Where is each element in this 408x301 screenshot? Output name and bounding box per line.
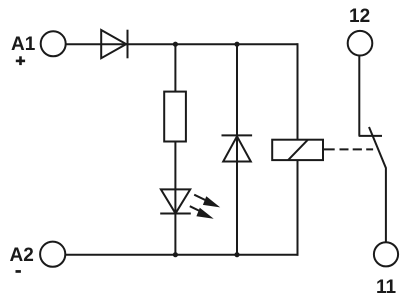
svg-text:11: 11: [376, 277, 397, 298]
terminal A2: [40, 242, 65, 267]
wire top rail: [66, 43, 298, 45]
LED: [160, 189, 191, 213]
wire bottom rail: [66, 254, 299, 256]
wire freewheel diode branch: [236, 44, 238, 255]
dashed actuation link: [324, 148, 373, 150]
svg-text:A2: A2: [10, 245, 34, 266]
terminal 12: [348, 31, 373, 56]
relay coil K1: [272, 140, 323, 161]
wire resistor branch upper: [174, 44, 176, 91]
resistor: [164, 92, 186, 142]
contact blade: [369, 127, 386, 242]
LED arrow 2: [190, 206, 214, 219]
wire contact 12 lead: [358, 55, 360, 136]
terminal A1: [41, 31, 66, 56]
wire resistor branch lower: [174, 142, 176, 255]
terminal 11: [374, 242, 398, 266]
wire relay top: [297, 43, 299, 140]
node junction bottom-right: [234, 252, 239, 257]
LED arrow 1: [194, 195, 220, 208]
svg-text:A1: A1: [11, 34, 36, 55]
wire relay bottom: [297, 160, 299, 256]
node junction top-left: [173, 42, 178, 47]
diode D2 freewheel: [222, 135, 253, 161]
contact fixed tick: [359, 135, 382, 137]
node junction top-right: [234, 42, 239, 47]
svg-text:12: 12: [349, 6, 370, 27]
label -: [16, 270, 21, 273]
diode D1: [101, 30, 127, 59]
label +: [16, 56, 25, 65]
node junction bottom-left: [173, 252, 178, 257]
